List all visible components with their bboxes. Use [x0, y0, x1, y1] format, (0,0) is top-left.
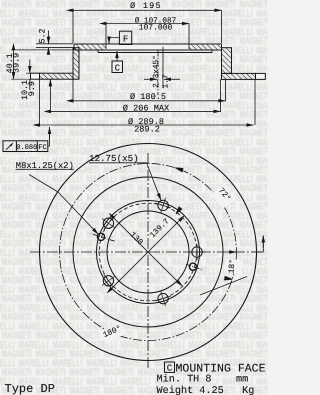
svg-text:12.75(x5): 12.75(x5)	[89, 153, 139, 164]
svg-text:M8x1.25(x2): M8x1.25(x2)	[16, 161, 74, 171]
svg-text:Type DP: Type DP	[5, 382, 55, 395]
svg-text:Min. TH 8 mm: Min. TH 8 mm	[157, 374, 249, 386]
svg-text:Ø 195: Ø 195	[130, 1, 162, 11]
svg-text:39.9: 39.9	[11, 53, 21, 73]
svg-text:F: F	[123, 35, 128, 45]
svg-text:0.080: 0.080	[16, 144, 37, 152]
svg-text:C: C	[167, 364, 173, 374]
svg-text:9.9: 9.9	[27, 81, 37, 96]
svg-text:FC: FC	[38, 144, 46, 152]
svg-text:2.3x45°: 2.3x45°	[152, 55, 161, 88]
svg-text:Ø 180.5: Ø 180.5	[130, 92, 166, 102]
svg-text:Ø 206 MAX: Ø 206 MAX	[123, 103, 169, 113]
svg-text:289.2: 289.2	[134, 124, 160, 134]
svg-text:107.000: 107.000	[139, 23, 173, 32]
svg-text:MOUNTING FACE: MOUNTING FACE	[176, 362, 266, 375]
svg-text:5.2: 5.2	[38, 28, 48, 43]
svg-text:1.7: 1.7	[162, 74, 171, 88]
svg-text:Weight 4.25 Kg: Weight 4.25 Kg	[157, 385, 255, 395]
svg-text:C: C	[115, 63, 121, 73]
svg-text:18°: 18°	[227, 259, 237, 274]
